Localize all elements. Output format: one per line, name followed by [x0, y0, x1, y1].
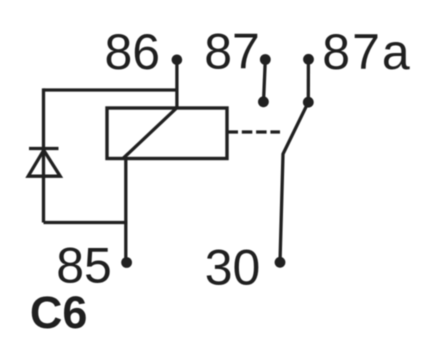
switch blade to terminal 30 [280, 102, 308, 262]
svg-text:C6: C6 [30, 287, 88, 338]
terminal 86 dot [172, 55, 183, 66]
svg-text:87a: 87a [322, 24, 411, 80]
svg-text:30: 30 [205, 240, 261, 296]
mechanical link (dashed) [228, 130, 281, 133]
wire: terminal 86 down to coil top [175, 60, 178, 109]
svg-text:86: 86 [104, 24, 160, 80]
terminal 87a bottom dot / blade pivot [303, 97, 314, 108]
wire: bottom horizontal from diode to 85 wire [44, 221, 128, 224]
wire: left vertical diode branch [42, 88, 45, 222]
contact 87 stem [264, 60, 266, 103]
wire: coil bottom to terminal 85 [124, 158, 127, 262]
relay coil [107, 108, 227, 159]
svg-text:85: 85 [56, 238, 112, 294]
wire: top horizontal from diode branch to 86 wire [44, 88, 179, 91]
terminal 30 dot [275, 257, 286, 268]
contact 87a stem [307, 60, 310, 103]
terminal 85 dot [121, 257, 132, 268]
coil diagonal [124, 109, 177, 158]
diode D1 [28, 149, 60, 177]
terminal 87 top dot [260, 54, 271, 65]
svg-text:87: 87 [204, 24, 260, 80]
terminal 87a top dot [303, 54, 314, 65]
terminal 87 bottom dot [258, 96, 269, 107]
